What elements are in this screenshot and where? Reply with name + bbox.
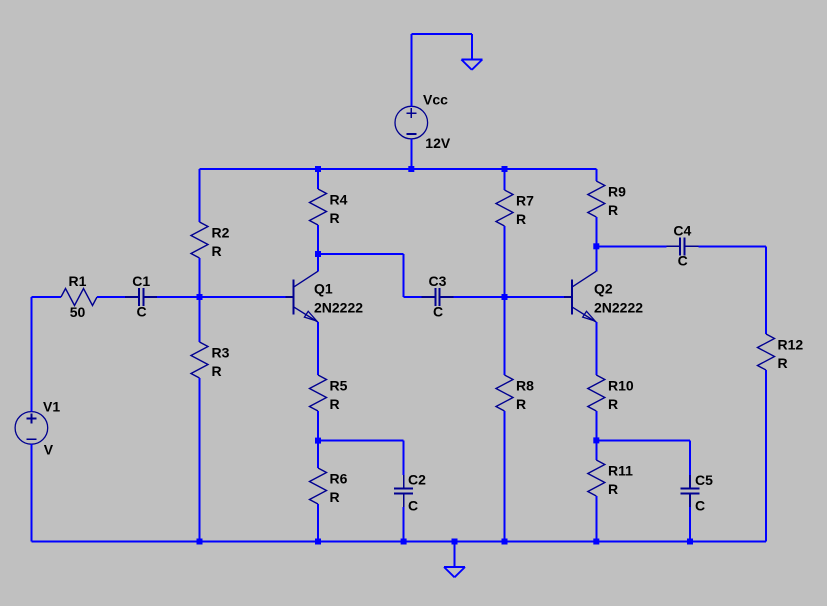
svg-text:C: C	[695, 498, 705, 514]
wire	[31, 296, 61, 298]
capacitor C3	[422, 296, 436, 298]
svg-text:V1: V1	[43, 398, 60, 414]
svg-text:R: R	[330, 396, 340, 412]
svg-text:R3: R3	[212, 345, 230, 361]
wire	[410, 34, 412, 106]
junction	[197, 539, 203, 545]
wire	[504, 411, 506, 542]
wire	[199, 258, 201, 342]
wire	[199, 169, 201, 222]
junction node emitter Q2	[593, 437, 599, 443]
capacitor C2	[403, 475, 405, 489]
wire	[471, 34, 473, 60]
wire	[698, 245, 766, 247]
wire	[504, 169, 506, 190]
junction	[401, 539, 407, 545]
junction	[687, 539, 693, 545]
svg-text:R6: R6	[330, 471, 348, 487]
wire	[765, 370, 767, 542]
wire	[595, 217, 597, 246]
wire	[317, 254, 319, 271]
wire	[317, 169, 319, 189]
svg-text:2N2222: 2N2222	[594, 300, 643, 316]
wire	[595, 411, 597, 460]
svg-text:R: R	[778, 355, 788, 371]
svg-text:R8: R8	[516, 378, 534, 394]
svg-text:Vcc: Vcc	[423, 92, 448, 108]
wire	[595, 169, 597, 181]
resistor R12	[758, 334, 775, 370]
ground bottom	[444, 566, 465, 568]
svg-text:C5: C5	[695, 472, 713, 488]
svg-text:R: R	[608, 202, 618, 218]
svg-text:R9: R9	[608, 184, 626, 200]
wire	[410, 139, 412, 169]
junction	[408, 166, 414, 172]
resistor R5	[310, 375, 327, 411]
wire	[317, 322, 319, 375]
junction node emitter Q1	[315, 438, 321, 444]
wire	[596, 245, 666, 247]
svg-text:12V: 12V	[425, 135, 451, 151]
wire	[454, 296, 505, 298]
svg-text:2N2222: 2N2222	[314, 300, 363, 316]
junction	[315, 166, 321, 172]
resistor R1	[61, 289, 97, 306]
svg-text:Q2: Q2	[594, 281, 613, 297]
resistor R4	[310, 189, 327, 225]
junction node in1	[197, 294, 203, 300]
svg-text:R2: R2	[212, 225, 230, 241]
wire bottom rail	[31, 541, 766, 543]
wire	[403, 507, 405, 542]
power source Vcc	[395, 106, 428, 139]
transistor Q1	[293, 280, 295, 315]
resistor R7	[496, 190, 513, 226]
wire	[317, 225, 319, 254]
resistor R11	[588, 460, 605, 496]
junction	[452, 539, 458, 545]
wire	[765, 246, 767, 334]
svg-text:C: C	[678, 253, 688, 269]
svg-text:V: V	[44, 441, 54, 457]
wire	[157, 296, 199, 298]
junction node collector Q2	[593, 243, 599, 249]
wire	[595, 322, 597, 375]
resistor R3	[191, 342, 208, 378]
resistor R2	[191, 222, 208, 258]
svg-text:C: C	[433, 304, 443, 320]
resistor R6	[310, 468, 327, 504]
capacitor C5	[689, 475, 691, 489]
wire base Q1	[200, 296, 286, 298]
voltage source V1	[15, 412, 48, 445]
wire	[596, 439, 690, 441]
svg-text:R7: R7	[516, 193, 534, 209]
svg-text:R: R	[516, 211, 526, 227]
wire top rail	[200, 168, 597, 170]
resistor R10	[588, 375, 605, 411]
junction	[315, 539, 321, 545]
wire	[199, 378, 201, 542]
svg-text:R: R	[608, 481, 618, 497]
svg-text:R: R	[212, 363, 222, 379]
svg-text:R: R	[608, 396, 618, 412]
svg-text:R: R	[516, 396, 526, 412]
junction node in2	[502, 294, 508, 300]
svg-text:C: C	[137, 304, 147, 320]
resistor R9	[588, 181, 605, 217]
svg-text:C: C	[408, 498, 418, 514]
svg-text:R: R	[212, 243, 222, 259]
svg-text:R1: R1	[69, 273, 87, 289]
svg-text:R: R	[330, 210, 340, 226]
wire	[317, 504, 319, 542]
wire	[97, 296, 125, 298]
wire	[30, 444, 32, 541]
resistor R8	[496, 375, 513, 411]
wire	[403, 441, 405, 475]
wire	[504, 226, 506, 375]
capacitor C1	[125, 296, 139, 298]
wire	[30, 297, 32, 412]
svg-text:R: R	[330, 489, 340, 505]
wire	[318, 253, 404, 255]
wire	[595, 496, 597, 542]
wire	[689, 440, 691, 475]
transistor Q2	[571, 280, 573, 315]
wire	[454, 542, 456, 568]
svg-text:C1: C1	[132, 273, 150, 289]
wire	[317, 411, 319, 468]
wire	[411, 33, 472, 35]
junction node collector Q1	[315, 251, 321, 257]
svg-text:C3: C3	[429, 273, 447, 289]
svg-text:50: 50	[70, 304, 86, 320]
junction	[593, 539, 599, 545]
wire	[403, 254, 405, 297]
junction	[502, 166, 508, 172]
svg-text:Q1: Q1	[314, 281, 333, 297]
svg-text:R4: R4	[330, 192, 348, 208]
wire	[404, 296, 422, 298]
svg-text:R11: R11	[608, 463, 633, 479]
wire	[318, 440, 404, 442]
svg-text:C2: C2	[408, 472, 426, 488]
ground top	[461, 59, 482, 61]
wire	[595, 246, 597, 271]
capacitor C4	[666, 245, 680, 247]
svg-text:R5: R5	[330, 378, 348, 394]
svg-text:R12: R12	[778, 337, 804, 353]
svg-text:R10: R10	[608, 378, 634, 394]
junction	[502, 539, 508, 545]
wire base Q2	[505, 296, 564, 298]
wire	[689, 507, 691, 542]
svg-text:C4: C4	[673, 222, 691, 238]
